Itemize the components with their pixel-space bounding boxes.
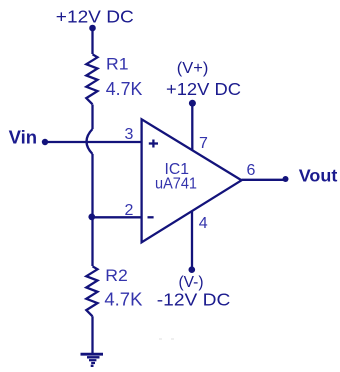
svg-text:Vin: Vin [9, 128, 37, 148]
svg-text:2: 2 [125, 202, 134, 219]
svg-text:7: 7 [199, 135, 208, 152]
svg-text:4: 4 [199, 215, 208, 232]
svg-text:-12V DC: -12V DC [157, 290, 231, 310]
svg-text:4.7K: 4.7K [104, 289, 142, 309]
svg-text:R1: R1 [106, 56, 129, 74]
svg-text:3: 3 [125, 126, 134, 143]
svg-text:uA741: uA741 [155, 175, 197, 192]
svg-text:R2: R2 [105, 267, 128, 285]
svg-text:+12V DC: +12V DC [56, 6, 134, 26]
svg-text:6: 6 [247, 162, 256, 179]
svg-text:+12V DC: +12V DC [166, 79, 241, 99]
svg-text:Vout: Vout [299, 166, 338, 186]
svg-text:4.7K: 4.7K [106, 79, 143, 99]
svg-text:(V-): (V-) [179, 274, 204, 291]
svg-text:(V+): (V+) [177, 60, 209, 77]
